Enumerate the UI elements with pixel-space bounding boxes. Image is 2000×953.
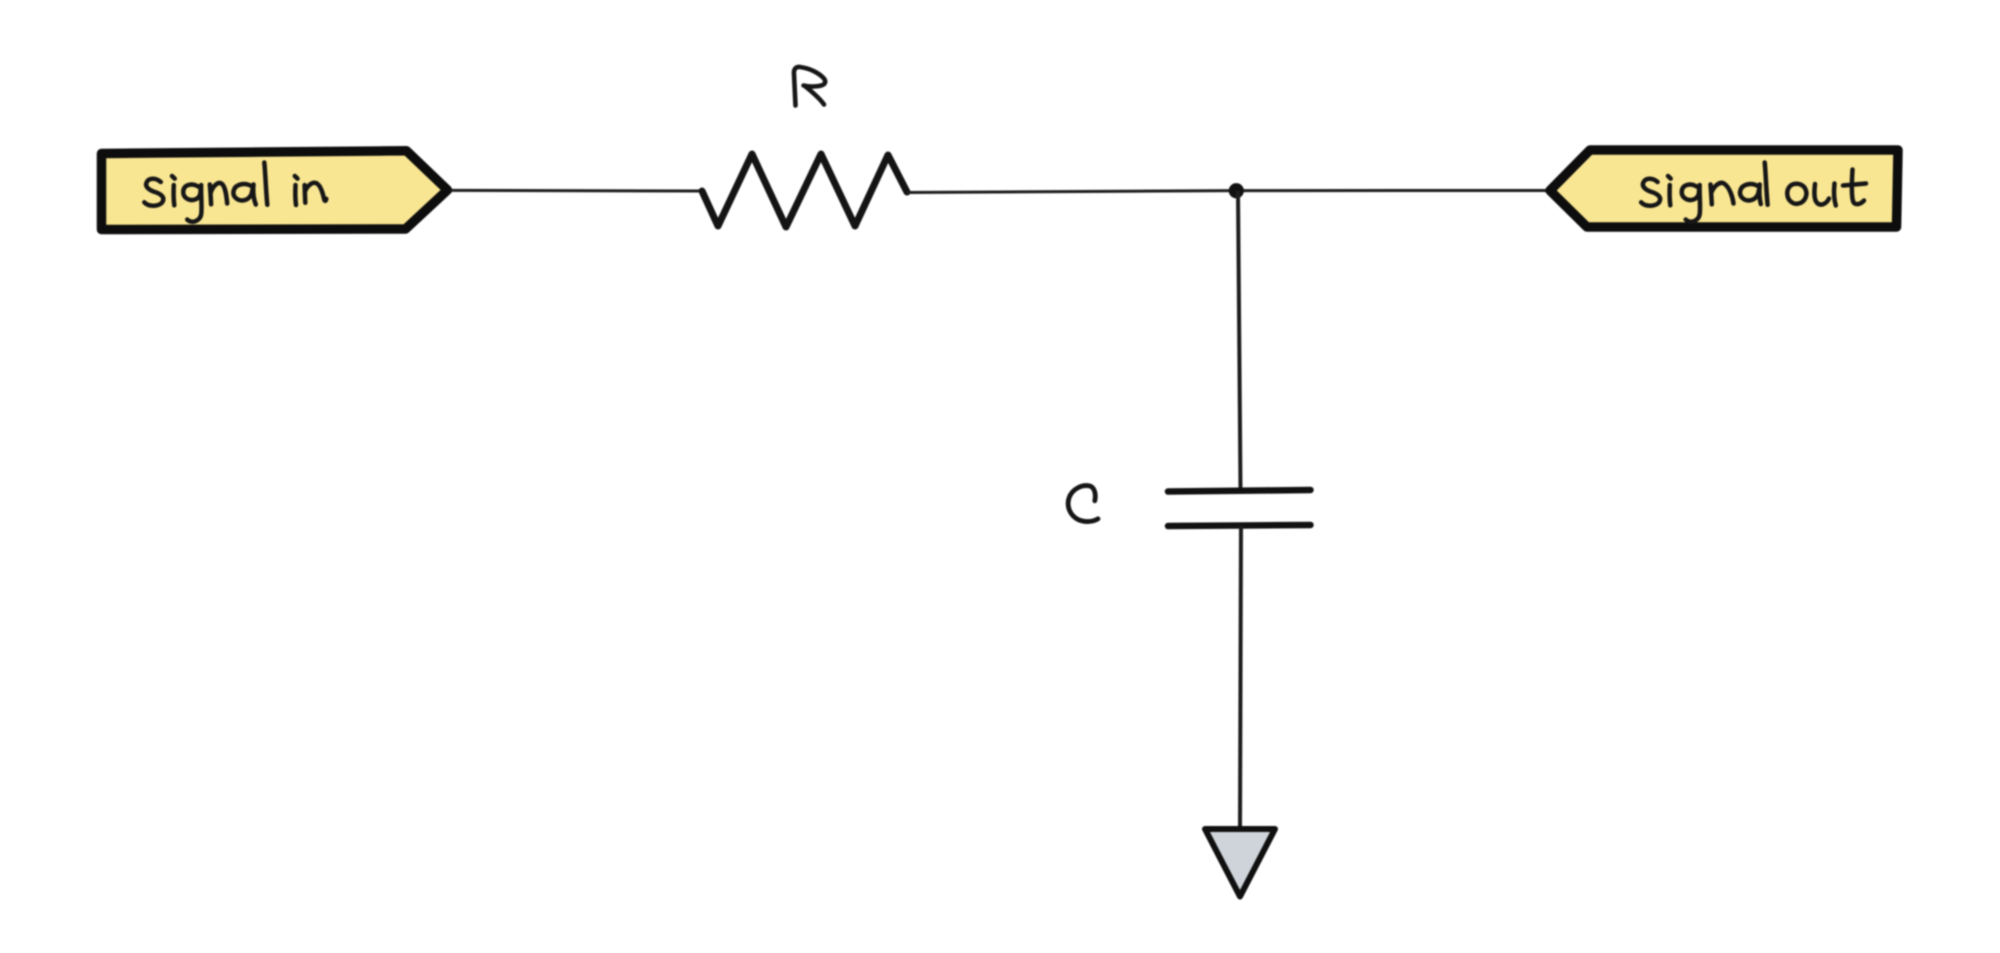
wire: junction node to capacitor [1238,191,1241,489]
wire: capacitor to ground [1240,526,1241,829]
o [1787,184,1806,204]
t [1843,170,1866,205]
g [1682,185,1700,222]
i [172,176,175,205]
l [1765,163,1768,205]
net label "signal in" flag [102,151,448,230]
wire: signal in to resistor [451,189,702,193]
u [1814,184,1835,206]
resistor R [702,154,907,227]
text "signal out" [1641,163,1866,222]
wire: resistor to junction node [907,191,1236,193]
junction node [1229,183,1244,198]
n [305,183,327,203]
bottom plate [1168,525,1311,526]
top plate [1168,490,1311,492]
wire: junction node to signal out [1236,189,1551,192]
n [210,183,227,204]
label C [1068,486,1098,522]
net label "signal out" flag [1550,150,1898,227]
capacitor C [1168,490,1311,526]
s [144,179,163,206]
ground [1205,829,1275,897]
g [183,185,201,222]
label R [794,67,825,106]
text "signal in" [144,163,326,222]
n [1711,183,1734,204]
i [295,176,298,205]
l [264,163,267,205]
a [1740,184,1761,204]
s [1641,179,1660,206]
i [1668,176,1671,205]
a [233,184,255,204]
